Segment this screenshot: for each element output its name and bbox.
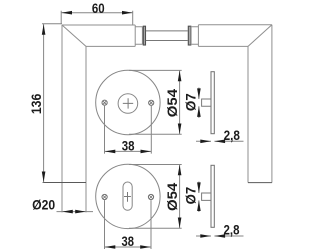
- svg-text:38: 38: [121, 234, 133, 249]
- svg-text:Ø20: Ø20: [32, 196, 55, 212]
- right neck left edge: [197, 25, 199, 47]
- right neck top edge: [198, 24, 272, 26]
- dim 136 extension top: [42, 23, 62, 25]
- R2 o54 dim line: [179, 165, 181, 229]
- svg-text:136: 136: [28, 94, 44, 115]
- arrow 60 left: [61, 11, 72, 15]
- left mitre diagonal: [62, 25, 86, 46]
- R1 screw left: [102, 100, 107, 105]
- svg-text:Ø7: Ø7: [183, 93, 198, 111]
- R2 38 dim line: [105, 246, 152, 248]
- arrow 38a right: [141, 150, 152, 154]
- dim 60 extension lines: [61, 11, 133, 25]
- arrow o7b bottom: [197, 200, 201, 211]
- dim o20 line: [57, 211, 94, 213]
- dim 60 line: [61, 12, 133, 14]
- svg-text:38: 38: [122, 137, 135, 153]
- R2 screw ext lines: [105, 200, 152, 249]
- arrow 38b left: [105, 245, 116, 249]
- P1 hub: [202, 99, 211, 106]
- left neck right edge: [134, 25, 136, 46]
- left collar ring: [143, 26, 145, 45]
- arrow o20 left: [62, 210, 73, 214]
- R2 screw right: [148, 194, 153, 199]
- left neck top edge: [62, 24, 135, 26]
- arrow 28a left: [200, 140, 211, 144]
- arrow o7a top: [197, 88, 201, 99]
- arrow o54b up: [178, 165, 182, 176]
- arrow 136 down: [42, 172, 46, 183]
- dim 136 line: [43, 24, 45, 183]
- R1 diameter ext lines: [129, 70, 182, 134]
- plate P2 side view: [211, 165, 214, 227]
- svg-text:Ø54: Ø54: [166, 89, 181, 117]
- P2 o7 dim line: [198, 182, 200, 213]
- R2 keyhole slot: [123, 182, 132, 210]
- R1 inner circle: [118, 94, 138, 114]
- svg-text:2,8: 2,8: [224, 127, 240, 143]
- right neck step: [191, 27, 198, 45]
- plate P1 side view: [211, 72, 214, 134]
- P1 2,8 dim line: [196, 140, 244, 142]
- svg-text:Ø7: Ø7: [183, 187, 198, 205]
- arrow o20 right: [75, 210, 86, 214]
- arrow 60 right: [122, 11, 133, 15]
- R2 cross: [124, 192, 131, 202]
- R1 38 dim line: [105, 150, 152, 152]
- arrow 28b right: [215, 234, 226, 238]
- R1 screw ext lines: [105, 106, 152, 154]
- svg-text:60: 60: [92, 0, 105, 16]
- arrow o54a down: [178, 124, 182, 135]
- R2 screw left: [102, 194, 107, 199]
- right neck bottom edge: [198, 45, 248, 47]
- P2 hub: [202, 193, 211, 200]
- arrow 28b left: [200, 234, 211, 238]
- right mitre diagonal: [248, 25, 272, 47]
- right collar ring: [188, 26, 191, 45]
- left neck bottom edge: [86, 45, 135, 47]
- left neck step: [135, 27, 142, 45]
- arrow 28a right: [215, 140, 226, 144]
- arrow o7a bottom: [197, 106, 201, 117]
- svg-text:2,8: 2,8: [224, 221, 240, 237]
- arrow o7b top: [197, 182, 201, 193]
- arrow 38b right: [140, 245, 151, 249]
- rosette R2 circle: [96, 164, 160, 228]
- P2 2,8 dim line: [196, 235, 244, 237]
- R1 o54 dim line: [179, 70, 181, 134]
- R2 diameter ext lines: [129, 165, 182, 229]
- left grip bar end: [43, 182, 86, 184]
- arrow 136 up: [42, 24, 46, 35]
- arrow o54a up: [178, 71, 182, 82]
- R1 screw right: [149, 100, 154, 105]
- R1 cross: [123, 98, 133, 108]
- right grip bar end: [248, 182, 272, 184]
- P1 o7 dim line: [198, 88, 200, 119]
- handle top view: left grip bar: [62, 25, 86, 212]
- spindle: [146, 31, 188, 41]
- rosette R1 circle: [96, 70, 160, 134]
- arrow o54b down: [178, 218, 182, 229]
- arrow 38a left: [105, 150, 116, 154]
- svg-text:Ø54: Ø54: [166, 183, 181, 211]
- right grip bar: [248, 25, 272, 183]
